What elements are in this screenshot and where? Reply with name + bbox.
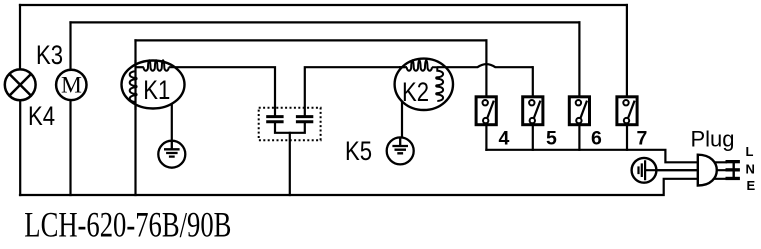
wire K1 ground stub bbox=[171, 104, 173, 141]
wire switch 5 bottom bbox=[532, 126, 534, 150]
wire top net2 horizontal bbox=[71, 21, 580, 23]
svg-text:K4: K4 bbox=[28, 102, 55, 132]
svg-text:Plug: Plug bbox=[691, 127, 735, 152]
inductor K2 top coil bbox=[407, 60, 432, 70]
plug prong N bbox=[726, 168, 740, 171]
wire net1 left vertical to lamp bbox=[19, 5, 21, 70]
svg-text:K1: K1 bbox=[143, 76, 170, 106]
wire K1 coil corner stub bbox=[136, 66, 144, 68]
motor M bbox=[56, 70, 86, 100]
svg-text:L: L bbox=[746, 144, 754, 159]
wire lamp bottom to bus bbox=[19, 100, 21, 195]
inlet connector bars bbox=[639, 160, 646, 180]
ground K1 bbox=[158, 141, 185, 168]
wire K1 vertical through ellipse bbox=[134, 60, 136, 110]
svg-text:N: N bbox=[746, 161, 755, 176]
wire inlet middle line overlay bbox=[645, 169, 700, 171]
wire K2 to switch 5 with hop bbox=[437, 64, 533, 67]
capacitor C1 bbox=[266, 117, 283, 122]
switch S7 bbox=[617, 97, 637, 125]
wire net2 vertical to motor bbox=[69, 22, 71, 70]
svg-text:5: 5 bbox=[546, 128, 557, 150]
wire switch 6 bottom bbox=[578, 126, 580, 150]
wire switch 7 bottom bbox=[626, 126, 628, 150]
wire net3 vertical to switch 4 bbox=[485, 40, 487, 95]
lamp K4 bbox=[5, 69, 36, 100]
wire capacitor bottoms join bbox=[275, 122, 305, 133]
inlet connector circle bbox=[632, 158, 657, 183]
wire switch bus to plug bbox=[486, 150, 726, 163]
svg-text:K3: K3 bbox=[36, 41, 63, 71]
wire bottom bus to plug bbox=[20, 179, 726, 195]
svg-text:4: 4 bbox=[499, 128, 510, 150]
plug prong connector line bbox=[733, 160, 735, 180]
plug prong E bbox=[726, 177, 740, 180]
wire top net1 horizontal bbox=[20, 4, 627, 6]
switch S6 bbox=[569, 97, 589, 125]
wire capacitor center to bus bbox=[289, 133, 291, 195]
switch S5 bbox=[523, 97, 543, 125]
motor K2 bbox=[395, 59, 453, 110]
wire switch 5 top bbox=[532, 67, 534, 95]
wire K1 to capacitor bbox=[169, 67, 275, 117]
svg-text:E: E bbox=[747, 178, 756, 193]
svg-text:7: 7 bbox=[637, 128, 648, 150]
svg-text:6: 6 bbox=[591, 128, 602, 150]
plug prong L bbox=[726, 160, 740, 163]
wire K2 ground stub bbox=[401, 101, 403, 137]
inductor K1 top coil bbox=[144, 60, 169, 70]
capacitor C2 bbox=[296, 117, 313, 122]
wire K1 left vertical to bus bbox=[134, 40, 136, 195]
ground K5 bbox=[387, 137, 414, 164]
inductor K1 left coil bbox=[130, 71, 137, 102]
svg-text:LCH-620-76B/90B: LCH-620-76B/90B bbox=[24, 205, 231, 244]
inductor K2 right coil bbox=[432, 67, 443, 101]
wire K2 entry stub bbox=[399, 66, 407, 68]
wire inlet middle line bbox=[645, 169, 726, 171]
wire motor bottom to bus bbox=[69, 100, 71, 195]
capacitor block dashed box bbox=[259, 108, 321, 140]
wire switch 6 top bbox=[578, 22, 580, 95]
motor K1 bbox=[122, 61, 185, 109]
switch S4 bbox=[476, 97, 496, 125]
wire top net3 horizontal bbox=[136, 39, 487, 41]
svg-text:M: M bbox=[61, 72, 82, 98]
plug body bbox=[698, 155, 717, 186]
svg-text:K5: K5 bbox=[345, 137, 372, 167]
svg-text:K2: K2 bbox=[402, 78, 429, 108]
wire switch 4 bottom bbox=[485, 126, 487, 150]
wire switch 7 top bbox=[626, 5, 628, 95]
wire capacitor C2 to K2 bbox=[305, 67, 407, 117]
